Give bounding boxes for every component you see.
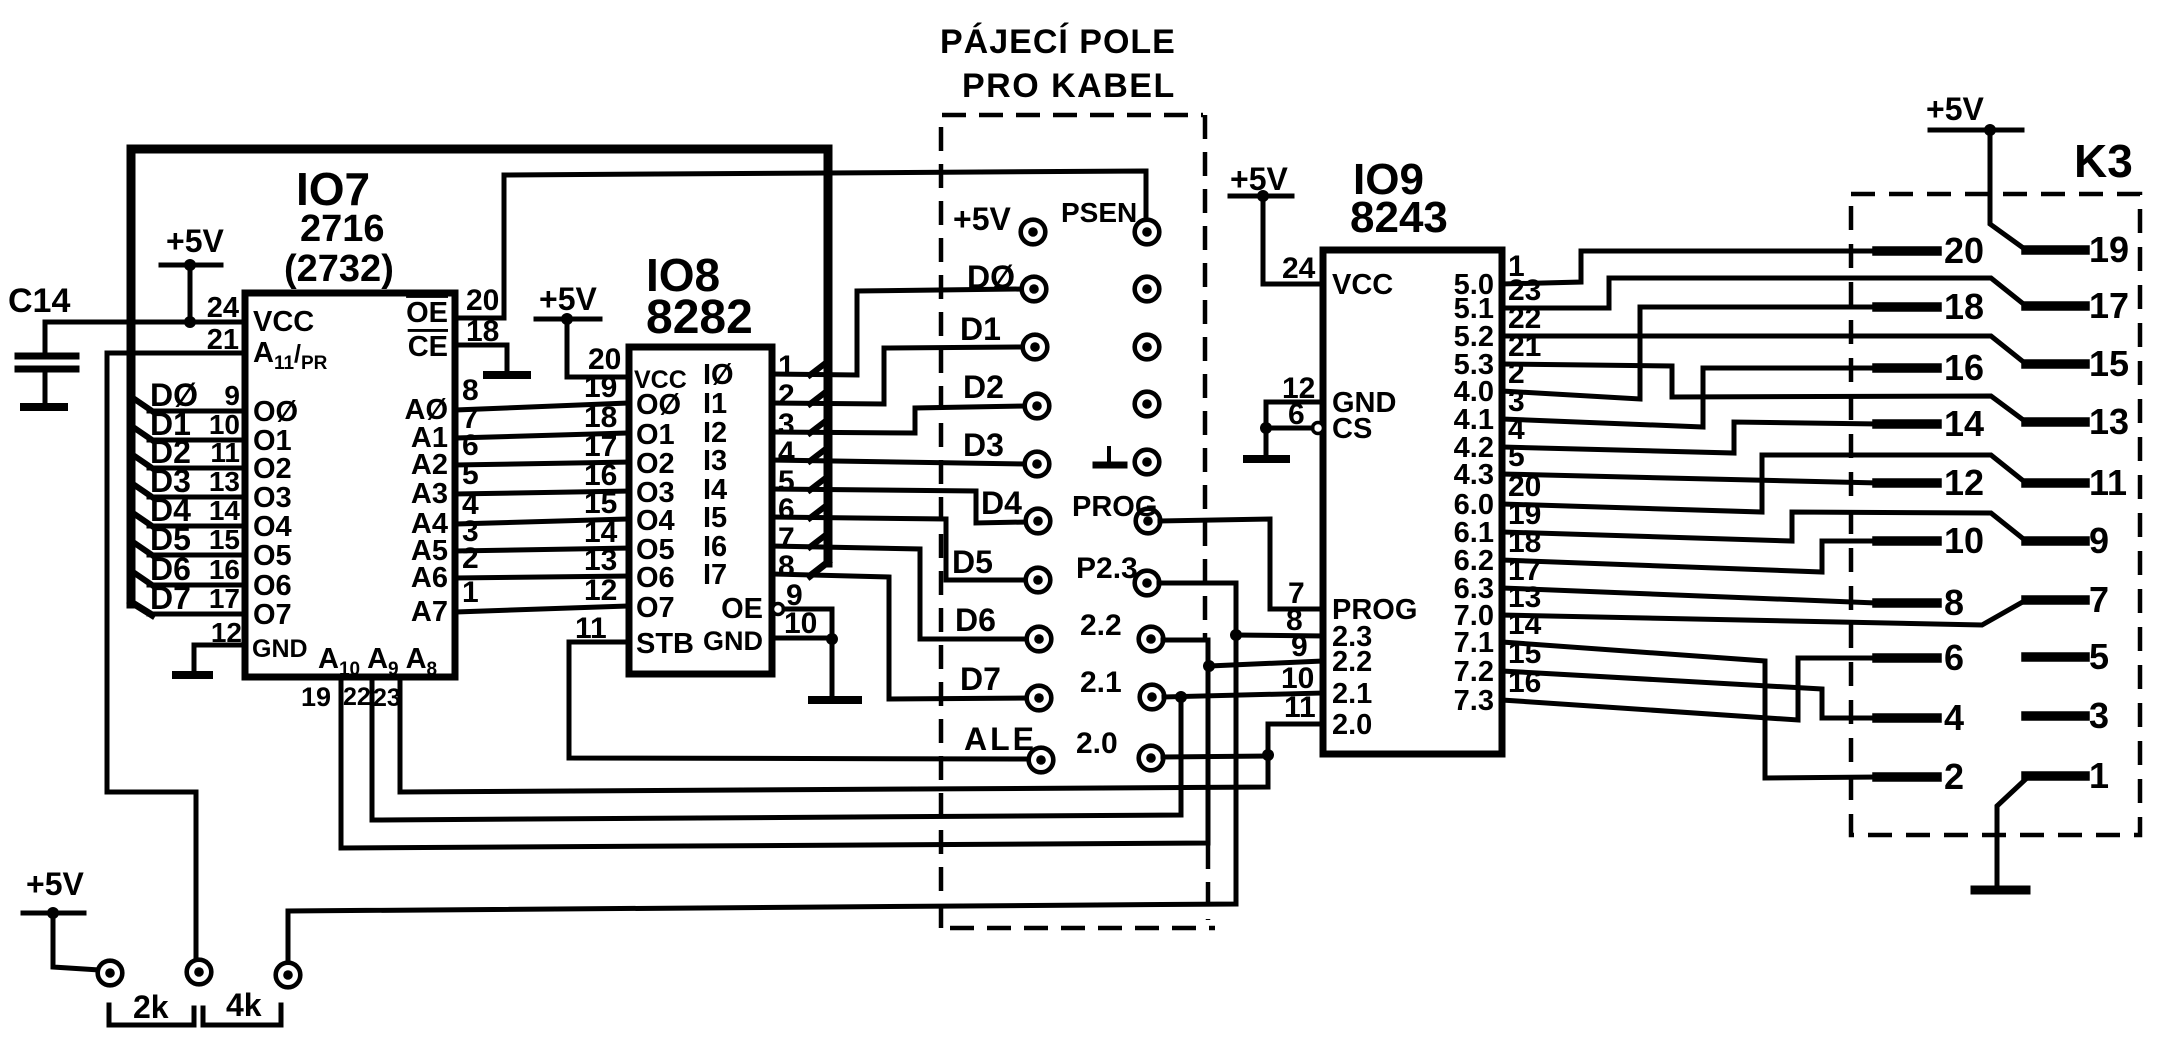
bus entry hatch D4 (left bus) <box>133 513 152 526</box>
K3 pin 8 stub <box>1877 598 1937 608</box>
solder pad D7 <box>1027 686 1052 711</box>
svg-text:PRO KABEL: PRO KABEL <box>962 67 1176 105</box>
wire IO7 O5 to bus <box>149 553 245 558</box>
svg-text:O4: O4 <box>253 511 292 543</box>
solder pad D2 <box>1025 394 1050 419</box>
K3 pin 6 stub <box>1877 653 1937 663</box>
K3 pin 13 stub <box>2026 417 2085 427</box>
wire IO7 O1 to bus <box>149 438 245 443</box>
wire IO7 A11/PR (pin21) run <box>107 351 245 356</box>
solder pad nc4 <box>1135 450 1160 475</box>
svg-text:C14: C14 <box>8 282 70 320</box>
svg-text:+5V: +5V <box>1926 91 1984 127</box>
junction dot P2.3/2.3 <box>1230 629 1242 641</box>
bus end entry to IO8 pin 8 (right) <box>810 562 828 576</box>
solder pad (2k/4k junction, A11/PR) <box>187 960 212 985</box>
svg-text:2: 2 <box>1944 756 1964 797</box>
wire IO8 I1(2) to D1 pad <box>772 347 1023 404</box>
svg-text:CS: CS <box>1332 413 1372 445</box>
svg-text:11: 11 <box>210 437 240 468</box>
svg-text:23: 23 <box>373 684 401 712</box>
bracket 2k <box>109 1005 194 1025</box>
wire IO9 4.1(3) to K3 pin 16 <box>1502 368 1877 427</box>
wire IO8 STB(11) to ALE pad <box>569 642 1029 759</box>
wire IO9 6.1(19) to K3 pin 9 <box>1502 512 2026 541</box>
solder pad D1 <box>1023 335 1048 360</box>
bus entry hatch D0 (left bus) <box>133 398 152 411</box>
svg-text:2: 2 <box>462 542 479 575</box>
wire IO7 A4 to IO8 O4 <box>455 519 629 524</box>
wire IO9 GND pin 12 to ground <box>1266 400 1323 405</box>
svg-text:P2.3: P2.3 <box>1076 552 1138 585</box>
svg-text:13: 13 <box>2089 401 2129 442</box>
svg-text:7.1: 7.1 <box>1454 627 1494 659</box>
bus entry hatch I5 (right bus) <box>810 505 827 518</box>
svg-text:16: 16 <box>1944 347 1984 388</box>
svg-text:9: 9 <box>1291 630 1308 663</box>
junction dot on IO7 VCC wire <box>184 316 196 328</box>
svg-text:+5V: +5V <box>26 866 84 902</box>
svg-text:D5: D5 <box>952 544 993 580</box>
svg-text:3: 3 <box>2089 695 2109 736</box>
svg-text:2716: 2716 <box>300 208 385 250</box>
svg-text:20: 20 <box>1944 230 1984 271</box>
svg-text:D7: D7 <box>150 580 191 616</box>
K3 pin 7 stub <box>2026 595 2085 605</box>
solder pad ALE <box>1029 748 1054 773</box>
IO8 OE pin 9 bubble <box>773 604 784 615</box>
svg-text:A2: A2 <box>411 449 448 481</box>
K3 pin 9 stub <box>2026 536 2085 546</box>
svg-text:4.3: 4.3 <box>1454 459 1494 491</box>
wire 2.2 pad down-run to A10 <box>341 640 1208 848</box>
svg-text:10: 10 <box>209 409 240 440</box>
svg-text:VCC: VCC <box>1332 269 1393 301</box>
wire K3 pin 1 to ground <box>1997 776 2029 886</box>
bracket 4k <box>203 1005 281 1025</box>
svg-text:OØ: OØ <box>253 396 298 428</box>
wire 2.0 junction up to IO9 2.0(11) <box>1268 724 1323 755</box>
wire IO7 A2 to IO8 O2 <box>455 462 629 465</box>
wire IO7 A1 to IO8 O1 <box>455 433 629 438</box>
svg-text:2.2: 2.2 <box>1080 609 1122 642</box>
svg-text:10: 10 <box>1944 520 1984 561</box>
wire 2.0 net down-run to A8 <box>400 677 1268 792</box>
svg-text:O2: O2 <box>253 453 292 485</box>
solder pad nc3 <box>1135 392 1160 417</box>
svg-text:D7: D7 <box>960 661 1001 697</box>
svg-text:16: 16 <box>209 554 240 585</box>
solder pad D4 <box>1026 509 1051 534</box>
svg-text:4: 4 <box>1944 697 1964 738</box>
wire IO7 O3 to bus <box>149 495 245 500</box>
wire IO9 2.3(8) to P2.3 net <box>1236 635 1323 636</box>
bus entry hatch D6 (left bus) <box>133 572 152 585</box>
wire IO7 A0 to IO8 O0 <box>455 403 629 410</box>
bus entry hatch I4 (right bus) <box>810 477 827 490</box>
bus end entry to D7 wire (left) <box>131 602 152 615</box>
svg-text:14: 14 <box>1944 403 1984 444</box>
wire IO9 6.0(20) to K3 pin 11 <box>1502 455 2026 512</box>
ground symbol (pad column) <box>1107 448 1111 462</box>
ground (IO7 pin 12) <box>176 671 209 679</box>
junction dot 2.0 <box>1262 749 1274 761</box>
svg-text:9: 9 <box>2089 520 2109 561</box>
wire IO7 A5 to IO8 O5 <box>455 548 629 551</box>
wire IO9 6.3(17) to K3 pin 8 <box>1502 588 1877 603</box>
wire IO8 I4(5) to D4 pad <box>772 489 1026 523</box>
svg-text:GND: GND <box>252 635 308 663</box>
svg-text:ALE: ALE <box>964 721 1037 757</box>
svg-text:15: 15 <box>2089 343 2129 384</box>
wire IO9 5.3(21) to K3 pin 13 <box>1502 364 2026 422</box>
wire IO8 VCC pin 20 <box>567 375 629 380</box>
svg-text:8: 8 <box>1944 582 1964 623</box>
wire P2.3 pad down-run <box>288 583 1236 962</box>
svg-text:12: 12 <box>584 574 617 607</box>
bus entry hatch D5 (left bus) <box>133 542 152 555</box>
wire IO9 4.2(4) to K3 pin 14 <box>1502 422 1877 453</box>
svg-text:PÁJECÍ POLE: PÁJECÍ POLE <box>940 23 1176 61</box>
capacitor C14 bottom stub <box>43 372 48 404</box>
wire IO8 I2(3) to D2 pad <box>772 406 1025 433</box>
K3 pin 16 stub <box>1877 363 1937 373</box>
wire IO8 I6(7) to D6 pad <box>772 546 1027 639</box>
svg-text:20: 20 <box>466 284 499 317</box>
wire 2.0 pad to junction <box>1163 756 1268 757</box>
svg-text:STB: STB <box>636 628 694 660</box>
wire IO8 I5(6) to D5 pad <box>772 517 1026 580</box>
solder pad D6 <box>1027 627 1052 652</box>
svg-text:13: 13 <box>584 544 617 577</box>
solder pad 2.0 <box>1139 746 1164 771</box>
solder pad D3 <box>1025 452 1050 477</box>
svg-text:5: 5 <box>2089 636 2109 677</box>
wire data bus D0-D7 (thick bus: left riser, top run, right riser) <box>131 149 828 604</box>
wire IO7 GND pin 12 <box>194 643 245 648</box>
svg-text:2k: 2k <box>133 989 169 1025</box>
svg-text:D3: D3 <box>963 427 1004 463</box>
wire IO7 O6 to bus <box>149 583 245 588</box>
bus entry hatch I0 (right bus) <box>810 362 827 375</box>
wire IO9 7.1(14) to K3 pin 2 <box>1502 642 1877 778</box>
wire IO7 A3 to IO8 O3 <box>455 491 629 494</box>
svg-text:7: 7 <box>2089 579 2109 620</box>
svg-text:10: 10 <box>784 607 817 640</box>
junction dot 2.1 <box>1175 691 1187 703</box>
solder pad +5V <box>1021 220 1046 245</box>
svg-text:2.0: 2.0 <box>1332 709 1372 741</box>
svg-text:O7: O7 <box>636 592 675 624</box>
solder pad PSEN <box>1135 220 1160 245</box>
svg-text:22: 22 <box>343 683 371 711</box>
K3 pin 5 stub <box>2026 652 2085 662</box>
svg-text:19: 19 <box>301 682 331 712</box>
svg-text:14: 14 <box>209 495 241 526</box>
svg-text:17: 17 <box>209 583 240 614</box>
svg-text:I3: I3 <box>703 445 727 477</box>
wire 2.1 net down-run to A9 <box>372 677 1181 820</box>
svg-text:6: 6 <box>1944 637 1964 678</box>
wire 2.1 pad to IO9 2.1(10) <box>1164 693 1323 697</box>
port expander IO9 body <box>1323 250 1502 754</box>
svg-text:IØ: IØ <box>703 359 734 391</box>
wire PROG pad to IO9 PROG(7) <box>1160 519 1323 609</box>
svg-text:O7: O7 <box>253 599 292 631</box>
svg-text:(2732): (2732) <box>284 248 394 290</box>
svg-text:2.2: 2.2 <box>1332 646 1372 678</box>
svg-text:D4: D4 <box>981 485 1022 521</box>
svg-text:+5V: +5V <box>166 223 224 259</box>
K3 pin 1 stub <box>2026 771 2085 781</box>
junction dot (IO9 GND/CS) <box>1260 422 1272 434</box>
ground (IO7 CE) <box>487 371 527 379</box>
wire IO9 VCC pin 24 <box>1263 282 1323 287</box>
K3 pin 14 stub <box>1877 419 1937 429</box>
wire IO9 CS pin 6 <box>1266 426 1312 431</box>
solder pad D5 <box>1026 568 1051 593</box>
ground (K3 pin 1) <box>1975 886 2026 895</box>
svg-text:A10 A9 A8: A10 A9 A8 <box>318 643 437 680</box>
solder pad nc2 <box>1135 335 1160 360</box>
bus entry hatch I2 (right bus) <box>810 420 827 433</box>
svg-text:GND: GND <box>703 626 763 656</box>
svg-text:PROG: PROG <box>1072 491 1157 523</box>
K3 pin 18 stub <box>1877 302 1937 312</box>
svg-text:8243: 8243 <box>1350 193 1448 242</box>
svg-text:24: 24 <box>1282 252 1316 285</box>
svg-text:1: 1 <box>2089 755 2109 796</box>
svg-text:PSEN: PSEN <box>1061 197 1137 228</box>
svg-text:O3: O3 <box>253 482 292 514</box>
junction dot 2.2 <box>1203 660 1215 672</box>
wire +5V rail to IO7 VCC pin 24 <box>45 320 245 325</box>
K3 pin 15 stub <box>2026 359 2085 369</box>
K3 pin 20 stub <box>1877 246 1937 256</box>
wire IO9 4.3(5) to K3 pin 12 <box>1502 474 1877 483</box>
ground (IO9 GND/CS) <box>1247 455 1286 463</box>
solder pad nc1 <box>1135 277 1160 302</box>
svg-text:24: 24 <box>207 292 239 324</box>
bus entry hatch I1 (right bus) <box>810 391 827 404</box>
svg-text:2.0: 2.0 <box>1076 727 1118 760</box>
svg-text:7.3: 7.3 <box>1454 685 1494 717</box>
svg-text:17: 17 <box>2089 285 2129 326</box>
solder pad 2.1 <box>1140 685 1165 710</box>
svg-text:O1: O1 <box>636 419 675 451</box>
svg-text:VCC: VCC <box>253 306 314 338</box>
K3 pin 12 stub <box>1877 478 1937 488</box>
svg-text:19: 19 <box>2089 229 2129 270</box>
svg-text:O2: O2 <box>636 448 675 480</box>
wire IO7 A6 to IO8 O6 <box>455 576 629 578</box>
K3 pin 17 stub <box>2026 301 2085 311</box>
svg-text:11: 11 <box>1284 691 1316 724</box>
wire IO7 O0 to bus <box>149 409 245 414</box>
wire IO9 4.0(2) to K3 pin 18 <box>1502 307 1877 399</box>
svg-text:19: 19 <box>584 371 617 404</box>
svg-text:I5: I5 <box>703 502 727 534</box>
junction dot (IO8 OE/GND) <box>826 633 838 645</box>
svg-text:DØ: DØ <box>967 259 1015 295</box>
wire IO7 O7 to bus <box>149 612 245 617</box>
latch IO8 body <box>629 347 772 674</box>
bus entry hatch I3 (right bus) <box>810 448 827 461</box>
svg-text:I1: I1 <box>703 388 727 420</box>
bus entry hatch D2 (left bus) <box>133 455 152 468</box>
wire IO9 7.0(13) to K3 pin 7 <box>1502 600 2026 625</box>
svg-text:15: 15 <box>209 524 240 555</box>
wire IO8 I3(4) to D3 pad <box>772 460 1025 464</box>
wire IO9 5.1(23) to K3 pin 17 <box>1502 278 2026 308</box>
connector K3 dashed box <box>1851 194 2140 835</box>
svg-text:OE: OE <box>721 593 763 625</box>
ground (IO8 pin 10) <box>812 696 858 704</box>
svg-text:K3: K3 <box>2074 135 2133 187</box>
wire IO8 GND pin 10 <box>772 636 832 641</box>
svg-text:A6: A6 <box>411 562 448 594</box>
wire IO7 O2 to bus <box>149 466 245 471</box>
IO9 CS pin 6 bubble <box>1313 423 1324 434</box>
svg-text:O4: O4 <box>636 505 675 537</box>
bus entry hatch D1 (left bus) <box>133 427 152 440</box>
svg-text:1: 1 <box>462 576 479 609</box>
EPROM IO7 body <box>245 293 455 677</box>
wire IO9 5.0(1) to K3 pin 20 <box>1502 251 1877 284</box>
svg-text:D2: D2 <box>963 369 1004 405</box>
svg-text:A3: A3 <box>411 478 448 510</box>
wire IO9 2.2(9) to 2.2 net <box>1209 661 1323 666</box>
svg-text:A7: A7 <box>411 596 448 628</box>
svg-text:6: 6 <box>1288 398 1305 431</box>
svg-text:D1: D1 <box>960 311 1001 347</box>
wire IO9 5.2(22) to K3 pin 15 <box>1502 336 2026 364</box>
K3 pin 19 stub <box>2026 245 2085 255</box>
svg-text:9: 9 <box>224 380 240 411</box>
svg-text:4k: 4k <box>226 987 262 1023</box>
bus entry hatch D3 (left bus) <box>133 484 152 497</box>
wire IO8 I0(1) to D0 pad <box>772 289 1022 375</box>
dashed box PAJECI POLE (solder pads for cable) <box>941 115 1203 928</box>
wire IO8 I7(8) to D7 pad <box>772 574 1027 699</box>
K3 pin 3 stub <box>2026 711 2085 721</box>
solder pad PROG <box>1136 509 1161 534</box>
wire IO9 7.2(15) to K3 pin 4 <box>1502 671 1877 718</box>
wire IO7 OE(20) to PSEN pad <box>455 171 1146 318</box>
svg-text:8282: 8282 <box>646 291 753 344</box>
svg-text:+5V: +5V <box>953 201 1011 237</box>
wire IO8 OE(9) to GND net <box>784 609 832 697</box>
svg-text:I7: I7 <box>703 559 727 591</box>
K3 pin 10 stub <box>1877 536 1937 546</box>
svg-text:OE: OE <box>406 297 448 329</box>
K3 pin 4 stub <box>1877 713 1937 723</box>
capacitor C14 top stub <box>43 322 48 352</box>
svg-text:12: 12 <box>1944 462 1984 503</box>
svg-text:CE: CE <box>408 331 448 363</box>
solder pad D0 <box>1022 277 1047 302</box>
wire IO7 A7 to IO8 O7 <box>455 606 629 612</box>
ground (below C14) <box>24 403 64 411</box>
svg-text:+5V: +5V <box>539 281 597 317</box>
svg-text:O5: O5 <box>253 540 292 572</box>
wire IO9 6.2(18) to K3 pin 10 <box>1502 541 1877 572</box>
capacitor C14 plates <box>18 353 76 360</box>
svg-text:11: 11 <box>2089 462 2127 503</box>
bus entry hatch I6 (right bus) <box>810 534 827 547</box>
solder pad (+5V / 2k end) <box>98 961 123 986</box>
svg-text:D6: D6 <box>955 602 996 638</box>
wire IO7 O4 to bus <box>149 524 245 529</box>
svg-text:2.1: 2.1 <box>1332 678 1372 710</box>
svg-text:13: 13 <box>209 466 240 497</box>
svg-text:2.1: 2.1 <box>1080 666 1122 699</box>
svg-text:7.2: 7.2 <box>1454 656 1494 688</box>
wire IO7 CE(18) to ground <box>455 345 507 371</box>
svg-text:18: 18 <box>1944 286 1984 327</box>
solder pad 2.2 <box>1139 627 1164 652</box>
K3 pin 11 stub <box>2026 478 2085 488</box>
wire IO9 7.3(16) to K3 pin 6 <box>1502 658 1877 720</box>
K3 pin 2 stub <box>1877 772 1937 782</box>
solder pad (4k end, P2.3) <box>276 963 301 988</box>
solder pad P2.3 <box>1135 571 1160 596</box>
svg-text:OØ: OØ <box>636 389 681 421</box>
svg-text:O6: O6 <box>253 570 292 602</box>
svg-text:O6: O6 <box>636 562 675 594</box>
